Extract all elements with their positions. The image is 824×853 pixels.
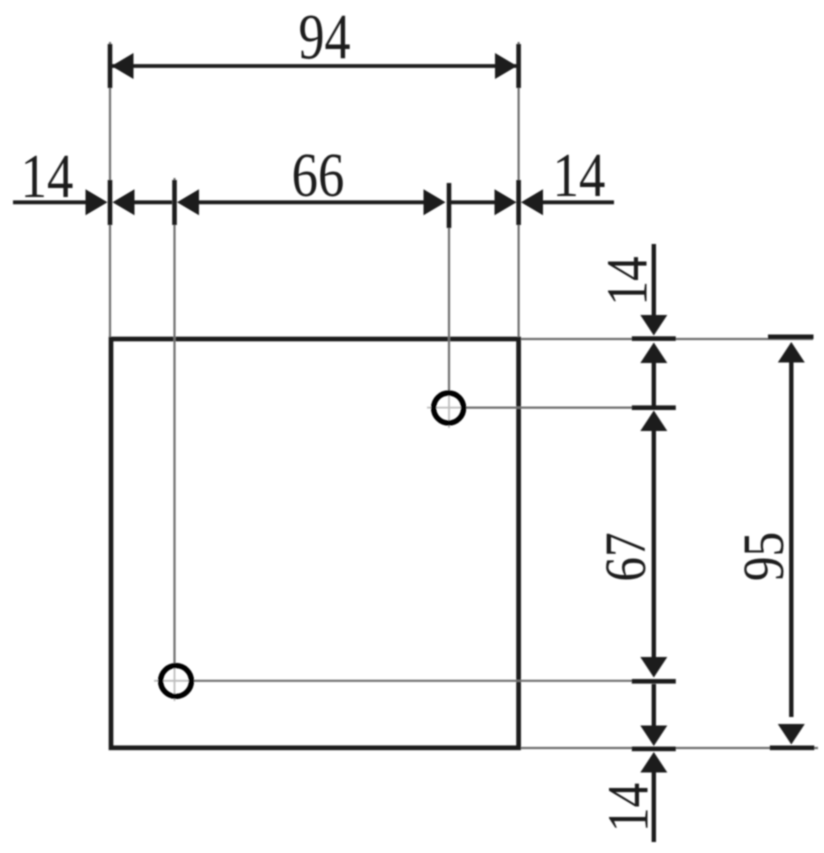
extension line left edge (109, 42, 111, 337)
dimension 94 (108, 1, 521, 88)
svg-text:94: 94 (299, 1, 351, 73)
svg-text:14: 14 (596, 783, 661, 832)
svg-text:95: 95 (731, 532, 796, 581)
dimension 14 bottom (596, 684, 676, 842)
dimension 14 left (13, 143, 172, 225)
svg-text:14: 14 (595, 256, 660, 305)
extension line bottom edge (521, 747, 818, 749)
dimension 14 top right (595, 244, 676, 341)
centerline hole H1 vertical (173, 178, 175, 664)
dimension 66 (172, 142, 451, 228)
hole H2 top-right (434, 393, 464, 423)
hole H1 bottom-left (161, 666, 192, 697)
dimension 67 (593, 343, 675, 684)
centerline hole H1 horizontal (154, 680, 192, 682)
plate outline (111, 339, 519, 748)
dimension 95 (731, 335, 814, 751)
centerline hole H2 vertical (448, 184, 450, 394)
svg-text:14: 14 (21, 143, 74, 211)
centerline hole H2 horizontal (427, 407, 463, 409)
svg-text:66: 66 (292, 142, 345, 210)
extension line top edge (521, 338, 813, 340)
svg-text:67: 67 (593, 532, 658, 581)
svg-text:14: 14 (553, 142, 606, 210)
extension line right edge (517, 42, 519, 337)
dimension 14 right (451, 142, 614, 225)
